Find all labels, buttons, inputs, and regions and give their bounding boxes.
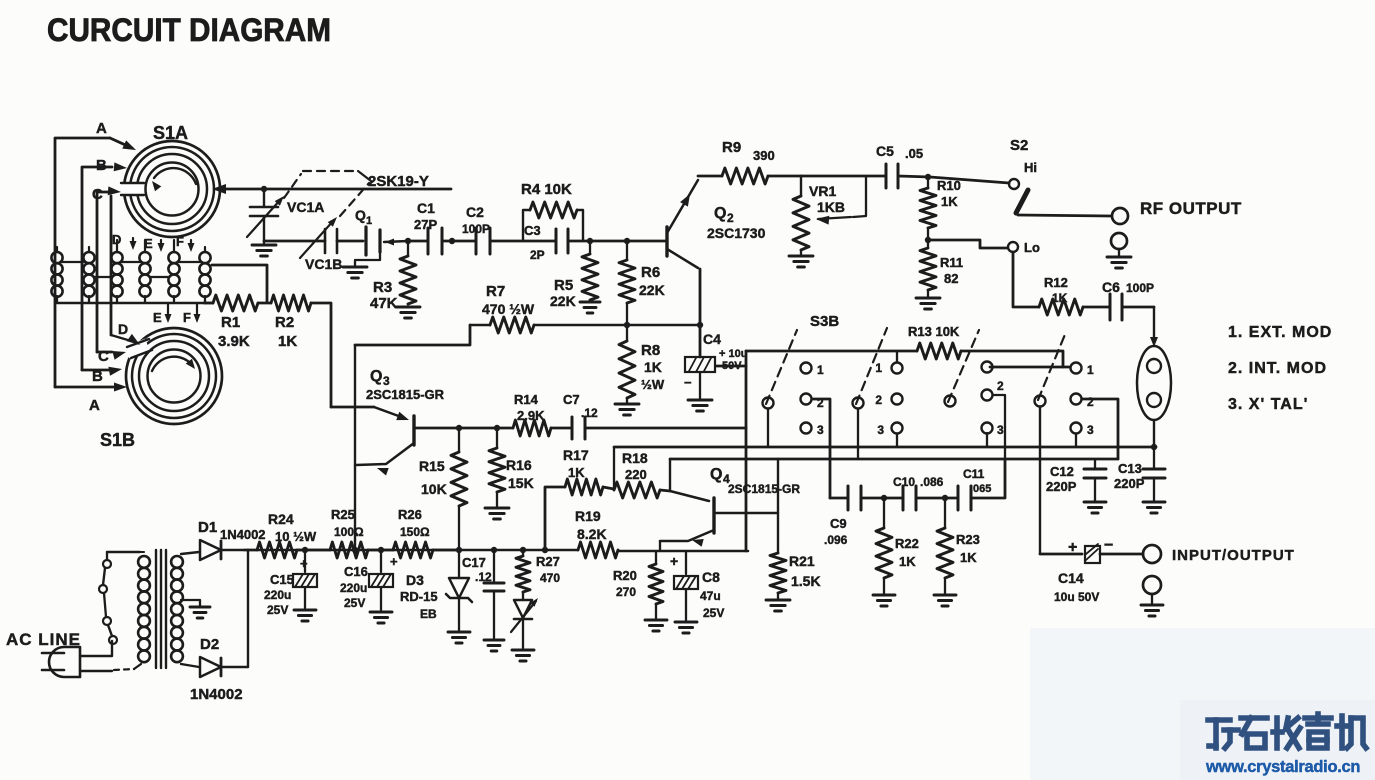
svg-text:+: + [300, 556, 308, 571]
node R16 top [494, 425, 500, 431]
resistor R20 [649, 551, 663, 604]
wire Lo-R12 [1013, 252, 1039, 307]
label R17 [563, 447, 589, 480]
transformer secondary [171, 556, 183, 662]
wire Q2 emitter down [699, 269, 702, 357]
ground RF [1107, 257, 1131, 268]
wire A to S1A [55, 138, 136, 387]
transistor Q1 [355, 227, 408, 266]
svg-text:Lo: Lo [1024, 240, 1040, 255]
arrow F2 [194, 303, 201, 323]
svg-text:Q: Q [714, 205, 726, 222]
label C7 [563, 392, 598, 420]
svg-text:1N4002: 1N4002 [220, 527, 266, 542]
label R9 [722, 139, 775, 163]
node R10 top [925, 174, 931, 180]
wire R25-R26 [368, 549, 393, 552]
resistor R25 [330, 542, 368, 558]
coil L6 [199, 252, 210, 303]
label F2 [183, 310, 191, 325]
label D2 [190, 636, 243, 703]
svg-text:3: 3 [997, 423, 1004, 437]
diode D1 [200, 540, 248, 560]
svg-text:C14: C14 [1058, 570, 1084, 586]
svg-text:10K: 10K [421, 481, 447, 497]
wire to C14 [1040, 553, 1082, 556]
svg-text:D2: D2 [200, 636, 219, 653]
svg-text:C1: C1 [417, 200, 435, 216]
transistor Q2 [667, 180, 698, 268]
svg-text:.05: .05 [905, 146, 923, 161]
wire S2-RF [1018, 215, 1111, 216]
svg-text:C: C [92, 186, 103, 203]
capacitor C10 [903, 486, 916, 510]
svg-text:F: F [176, 234, 184, 249]
svg-text:25V: 25V [703, 606, 724, 620]
label R21 [789, 553, 821, 589]
wire rail to C5 [801, 175, 886, 178]
svg-text:47u: 47u [700, 589, 721, 603]
svg-text:150Ω: 150Ω [400, 525, 430, 539]
wire col3-3 down [986, 433, 988, 447]
switch S2 Hi contact [1009, 160, 1037, 189]
label R3 [370, 279, 398, 312]
svg-text:100Ω: 100Ω [334, 525, 364, 539]
svg-text:Q: Q [370, 368, 382, 385]
node rail g [542, 547, 548, 553]
svg-text:470: 470 [540, 571, 560, 585]
svg-text:F: F [183, 310, 191, 325]
svg-text:R13 10K: R13 10K [908, 324, 960, 339]
svg-text:R15: R15 [419, 458, 445, 474]
svg-text:S2: S2 [1010, 137, 1028, 154]
S3 wiper contact d [1035, 396, 1046, 407]
label Q2 [707, 205, 766, 241]
label C16 [340, 554, 398, 610]
label C4 [684, 331, 747, 390]
ground secondary tap [190, 607, 210, 618]
coil L2 [83, 252, 94, 303]
resistor R24 [257, 542, 297, 558]
wire col2-1 up [896, 351, 898, 362]
label AC LINE [6, 630, 81, 649]
ground C17 [484, 640, 504, 651]
capacitor C7 [572, 417, 585, 439]
svg-text:A: A [89, 397, 100, 414]
wire F-R1 [204, 302, 213, 305]
ground C4 [688, 400, 712, 411]
svg-text:2: 2 [997, 379, 1004, 393]
wire C2-C3 [490, 240, 556, 243]
svg-text:100P: 100P [462, 222, 490, 236]
label Q4 [710, 466, 800, 496]
label D1 [198, 519, 266, 542]
wire B to S1A [82, 162, 127, 370]
label R2 [275, 314, 297, 350]
svg-text:1N4002: 1N4002 [190, 686, 243, 703]
label INPUT/OUTPUT [1172, 547, 1295, 564]
gang dashes VC1B [340, 183, 369, 216]
transistor Q3 [356, 407, 414, 476]
wire R24-R25 [297, 549, 330, 552]
wire R1-R2 [258, 302, 271, 305]
capacitor C14 [1068, 537, 1113, 563]
node emitter-R7 [697, 322, 703, 328]
resistor R23 [937, 498, 953, 595]
coil bank jumpers [62, 262, 200, 277]
svg-text:3. X' TAL': 3. X' TAL' [1228, 396, 1308, 413]
label VC1A [287, 199, 324, 215]
wire R7 step [355, 325, 470, 345]
svg-text:INPUT/OUTPUT: INPUT/OUTPUT [1172, 547, 1295, 564]
svg-text:R25: R25 [331, 507, 355, 522]
wire R9-corner [768, 175, 801, 178]
dashed gang line 4 [1038, 332, 1066, 400]
capacitor C5 [886, 164, 898, 188]
resistor R19 [578, 542, 618, 558]
coil L5 [168, 252, 179, 303]
svg-text:+: + [390, 554, 398, 569]
resistor R26 [393, 542, 433, 558]
svg-text:S1A: S1A [153, 123, 188, 143]
S3 contacts column 4 [1071, 363, 1095, 438]
wire C to S1B [97, 351, 126, 360]
svg-text:220: 220 [625, 467, 647, 482]
gang dashes VC1A [284, 174, 301, 198]
svg-text:Q: Q [355, 207, 366, 223]
svg-text:C13: C13 [1118, 461, 1142, 476]
ground R16 [485, 508, 509, 519]
label R5 [550, 277, 576, 309]
ground C12 [1084, 502, 1106, 513]
label R12 [1044, 275, 1068, 305]
label F [176, 234, 184, 249]
ground input [1141, 605, 1163, 616]
label Q1 [355, 207, 372, 227]
coil L1 [51, 252, 62, 303]
label C13 [1114, 461, 1145, 491]
svg-text:R5: R5 [554, 277, 573, 294]
svg-text:1K: 1K [568, 465, 585, 480]
arrow D [130, 238, 137, 250]
capacitor C16 [369, 550, 393, 610]
resistor R13 [917, 343, 961, 359]
coil bank top stubs [57, 240, 205, 252]
power rail left [244, 549, 578, 552]
svg-text:C5: C5 [876, 143, 894, 159]
svg-text:82: 82 [944, 271, 958, 286]
resistor R8 [619, 325, 635, 404]
node R10-R11 [925, 237, 931, 243]
ground R21 [766, 600, 790, 611]
label R13 [908, 324, 960, 339]
wire switch to transformer [107, 551, 140, 553]
wire B to S1B [82, 367, 122, 376]
label R22 [895, 536, 919, 569]
svg-text:C11: C11 [963, 467, 985, 481]
svg-text:R26: R26 [398, 507, 422, 522]
wire Q2 collector rail [698, 175, 722, 178]
wire secondary top [181, 552, 199, 554]
wire R10-Lo [928, 240, 1007, 248]
svg-text:+: + [1068, 539, 1077, 556]
resistor R15 [451, 428, 467, 550]
ground R5 [580, 302, 600, 313]
label 2SK19-Y [368, 173, 429, 190]
svg-text:1. EXT. MOD: 1. EXT. MOD [1228, 324, 1332, 341]
label D [112, 232, 121, 247]
svg-text:½W: ½W [641, 377, 665, 392]
svg-text:C2: C2 [466, 204, 484, 220]
wire Q4 collector up [669, 459, 671, 491]
svg-text:Hi: Hi [1024, 160, 1037, 175]
node Q1-R3 [405, 238, 411, 244]
bus wire lower [670, 458, 1118, 461]
node R22 top [881, 495, 887, 501]
svg-text:1K: 1K [278, 333, 297, 350]
terminal INPUT/OUTPUT [1143, 545, 1161, 563]
resistor R12 [1039, 299, 1083, 315]
svg-text:R7: R7 [486, 283, 505, 300]
wire secondary tap [181, 600, 200, 606]
arrow E [158, 240, 165, 252]
AC plug [42, 647, 80, 677]
svg-text:C8: C8 [702, 569, 720, 585]
variable capacitor VC1B [300, 217, 337, 258]
node top rail join [449, 238, 455, 244]
watermark url [1205, 758, 1360, 776]
arrow E2 [165, 303, 172, 323]
wire wiper d down [1039, 407, 1041, 554]
wire C9 line left [830, 497, 848, 500]
resistor R2 [271, 295, 311, 311]
S3 wiper contact b [853, 398, 864, 409]
crystal socket X'TAL [1137, 346, 1171, 420]
resistor R6 [619, 241, 635, 325]
label R8 [641, 342, 665, 392]
resistor R1 [213, 295, 258, 311]
svg-text:1KB: 1KB [817, 199, 845, 215]
svg-text:C10: C10 [893, 475, 915, 489]
wire col1-2 tap [812, 399, 830, 498]
dashed gang line 1 [766, 330, 797, 404]
label R19 [575, 508, 607, 542]
node S1A-line [261, 186, 267, 192]
svg-text:−: − [684, 375, 692, 390]
capacitor C9 [848, 486, 861, 510]
svg-text:R12: R12 [1044, 275, 1068, 290]
svg-text:VR1: VR1 [809, 183, 836, 199]
svg-text:C15: C15 [270, 572, 294, 587]
svg-text:VC1B: VC1B [305, 256, 342, 272]
svg-text:R20: R20 [613, 568, 637, 583]
ground Q1 [343, 267, 367, 278]
resistor R14 [513, 420, 551, 436]
label C8 [670, 553, 724, 620]
S3 contacts column 2 [875, 361, 902, 437]
ground C8 [675, 622, 697, 633]
diode D2 [200, 657, 248, 677]
wire col4-2 tap [1082, 399, 1118, 459]
label C15 [264, 556, 308, 617]
resistor R7 [470, 317, 700, 333]
svg-text:+ 10u: + 10u [719, 348, 747, 360]
svg-text:3: 3 [383, 374, 390, 388]
label C3 [524, 223, 545, 262]
ground R23 [934, 595, 956, 606]
wire C1-C2 [442, 240, 476, 243]
ground C13 [1143, 502, 1165, 513]
svg-text:1K: 1K [960, 550, 977, 565]
svg-text:2. INT. MOD: 2. INT. MOD [1228, 360, 1327, 377]
wire S3B box left [745, 351, 748, 551]
wire R13 right [961, 351, 1063, 367]
wire R2-Q3 collector [331, 406, 374, 409]
label A [96, 120, 107, 137]
S3 contacts column 3 [982, 362, 1005, 438]
svg-text:C12: C12 [1050, 464, 1074, 479]
label C17 [462, 555, 492, 584]
svg-text:220u: 220u [340, 581, 367, 595]
wire C to S1A [97, 186, 121, 352]
resistor R4 [523, 202, 583, 241]
svg-text:www.crystalradio.cn: www.crystalradio.cn [1205, 758, 1360, 776]
svg-text:C6: C6 [1102, 279, 1120, 295]
wiper line [818, 217, 851, 219]
label RF OUTPUT [1140, 199, 1242, 218]
wire crystal down [1153, 420, 1155, 447]
switch S2 blade [1016, 190, 1028, 213]
svg-text:1K: 1K [644, 359, 662, 375]
svg-text:C9: C9 [830, 516, 847, 531]
svg-text:3: 3 [877, 423, 884, 437]
svg-text:EB: EB [420, 607, 437, 621]
capacitor C12 [1084, 459, 1106, 502]
svg-text:220P: 220P [1114, 476, 1145, 491]
svg-text:R6: R6 [641, 264, 660, 281]
svg-text:RF OUTPUT: RF OUTPUT [1140, 199, 1242, 218]
svg-text:2P: 2P [530, 248, 545, 262]
svg-text:R27: R27 [536, 554, 560, 569]
svg-text:2: 2 [875, 393, 882, 407]
svg-text:−: − [1104, 537, 1113, 554]
ground VR1 [789, 256, 813, 267]
wire R14-C7 [551, 427, 572, 430]
svg-text:390: 390 [753, 148, 775, 163]
svg-text:470 ½W: 470 ½W [482, 301, 535, 317]
svg-text:27P: 27P [414, 217, 437, 232]
resistor R3 [400, 241, 416, 304]
node R6 [624, 238, 630, 244]
terminal RF OUTPUT [1112, 208, 1128, 224]
resistor R11 [920, 248, 936, 298]
capacitor C15 [293, 550, 317, 608]
wire A to S1B [55, 383, 127, 392]
label R4 [521, 181, 572, 198]
ground R22 [873, 595, 895, 606]
svg-text:VC1A: VC1A [287, 199, 324, 215]
wire D to S1B [111, 196, 140, 345]
node rail f [520, 547, 526, 553]
ground C15 [294, 610, 316, 621]
wire C5-Hi [898, 176, 1009, 183]
variable capacitor VC1A [247, 189, 284, 243]
label E2 [153, 310, 162, 325]
coil bottom bus [57, 302, 213, 304]
resistor R5 [582, 241, 598, 300]
ground D4 [512, 650, 534, 661]
wire C3-Q2 [568, 240, 667, 243]
capacitor C1 [428, 228, 442, 254]
label R7 [482, 283, 535, 317]
svg-text:C4: C4 [703, 331, 721, 347]
wire Q3 base line [414, 427, 513, 430]
svg-text:B: B [96, 157, 107, 174]
wire C7 right [585, 427, 746, 430]
wire R12-C6 [1083, 306, 1110, 309]
svg-text:C16: C16 [344, 564, 368, 579]
svg-text:R11: R11 [940, 255, 963, 270]
svg-text:S3B: S3B [810, 313, 839, 330]
svg-text:25V: 25V [344, 596, 365, 610]
svg-text:S1B: S1B [100, 430, 135, 450]
wiper VR1 [816, 177, 866, 225]
wire secondary bottom [181, 664, 199, 667]
node C13 top [1151, 444, 1157, 450]
wire wiper a down [767, 409, 769, 447]
ground R11 [916, 298, 940, 309]
svg-text:2SC1730: 2SC1730 [707, 225, 766, 241]
coil L3 [111, 252, 122, 303]
S3 wiper contact c [945, 396, 956, 407]
node rail c [378, 547, 384, 553]
svg-text:Q: Q [710, 466, 722, 483]
svg-text:1: 1 [1087, 363, 1094, 377]
capacitor C13 [1143, 447, 1165, 502]
wire col4-3 down [1075, 434, 1077, 447]
svg-text:25V: 25V [267, 603, 288, 617]
ground C16 [370, 612, 392, 623]
power rail right [618, 550, 748, 553]
svg-text:.096: .096 [824, 533, 848, 547]
label A2 [89, 397, 100, 414]
label C2 [462, 204, 490, 236]
ground D3 [448, 632, 470, 643]
svg-text:R14: R14 [514, 392, 539, 407]
wire contact link [990, 366, 1069, 369]
label E [144, 236, 153, 251]
ground VC1A [252, 245, 276, 256]
capacitor C6 [1110, 294, 1122, 320]
svg-text:10u 50V: 10u 50V [1054, 590, 1099, 604]
bus wire upper [614, 446, 1156, 449]
label C6 [1102, 279, 1154, 295]
wire C6-crystal [1122, 307, 1158, 347]
label R6 [639, 264, 665, 298]
node R18 up [613, 447, 615, 489]
transformer primary [138, 552, 150, 662]
node R15 top [456, 425, 462, 431]
label C2 [98, 348, 109, 365]
svg-text:C17: C17 [462, 555, 486, 570]
svg-text:8.2K: 8.2K [577, 526, 607, 542]
label S1A [153, 123, 188, 143]
capacitor C2 [476, 228, 490, 254]
svg-text:22K: 22K [550, 293, 576, 309]
svg-text:R10: R10 [937, 178, 961, 193]
svg-text:D: D [118, 321, 128, 337]
label C1 [414, 200, 437, 232]
